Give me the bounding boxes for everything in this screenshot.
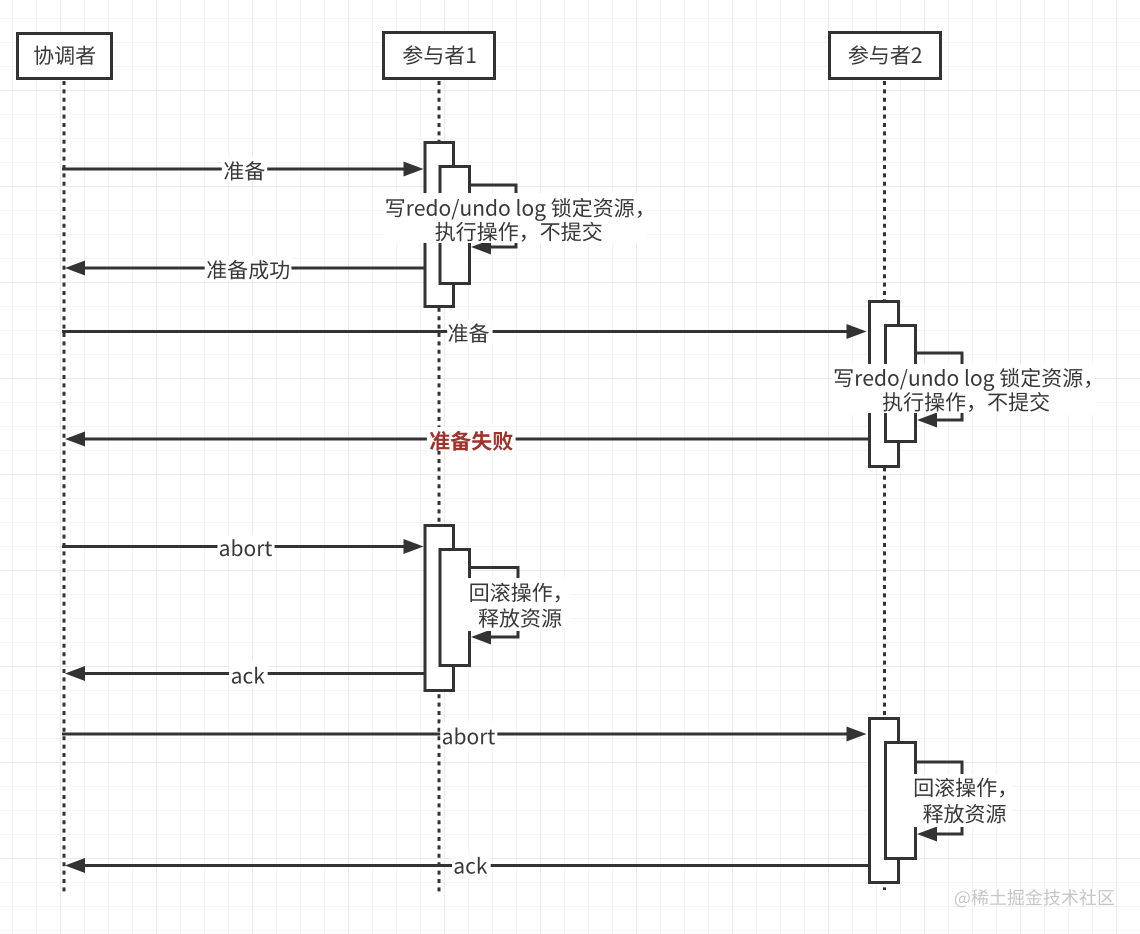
note text 参与者2 line2: [883, 392, 1049, 412]
label background 准备失败: [427, 427, 516, 451]
actor box 参与者1: [384, 33, 495, 79]
note background 参与者2 write log / lock: [832, 364, 1095, 413]
activation bar 参与者1 outer (abort phase): [425, 526, 454, 691]
label background 准备 #2: [447, 320, 492, 344]
note text 参与者1 line1: [386, 198, 641, 221]
arrow 准备失败 参与者2→协调者: [65, 432, 868, 447]
watermark @稀土掘金技术社区: [955, 889, 1114, 907]
label 准备成功: [207, 260, 289, 280]
arrow 准备成功 参与者1→协调者: [65, 261, 424, 276]
label background ack #1: [229, 662, 268, 686]
label ack #2: [455, 857, 488, 874]
note text 参与者2 rollback line2: [923, 804, 1006, 823]
arrow ack 参与者2→协调者: [65, 858, 868, 873]
note text 参与者1 rollback line2: [479, 608, 562, 627]
activation bar 参与者2 inner (prepare phase): [886, 326, 916, 442]
label 准备失败 (red): [430, 431, 513, 451]
lifeline 协调者: [63, 81, 66, 892]
label background abort #1: [218, 535, 275, 559]
activation bar 参与者2 outer (abort phase): [870, 719, 899, 883]
activation bar 参与者2 inner (abort phase): [886, 743, 916, 859]
note text 参与者1 rollback line1: [470, 583, 559, 603]
self message loop 参与者1 (rollback): [471, 568, 518, 645]
note background 参与者2 rollback: [908, 774, 1012, 827]
actor title 协调者: [34, 46, 95, 65]
arrow 准备 协调者→参与者2: [62, 324, 867, 339]
label 准备 #1: [224, 161, 264, 180]
note text 参与者1 line2: [435, 222, 601, 242]
arrow ack 参与者1→协调者: [65, 666, 424, 681]
arrow abort 协调者→参与者1: [62, 539, 424, 554]
label abort #1: [220, 539, 272, 556]
actor box 参与者2: [830, 33, 941, 79]
actor title 参与者2: [849, 45, 922, 64]
actor title 参与者1: [403, 45, 476, 64]
label background 准备 #1: [222, 157, 267, 181]
arrow 准备 协调者→参与者1: [62, 162, 424, 177]
label 准备 #2: [449, 323, 489, 342]
lifeline 参与者2: [883, 81, 886, 890]
activation bar 参与者2 outer (prepare phase): [870, 302, 899, 467]
label background ack #2: [452, 854, 491, 878]
arrow abort 协调者→参与者2: [62, 727, 867, 742]
activation bar 参与者1 inner (abort phase): [440, 550, 470, 666]
note background 参与者1 write log / lock: [384, 193, 646, 243]
lifeline 参与者1: [438, 81, 441, 892]
self message loop 参与者2 (write log / lock): [917, 353, 962, 428]
note text 参与者2 rollback line1: [915, 778, 1004, 798]
self message loop 参与者1 (write log / lock): [471, 185, 516, 255]
label background abort #2: [440, 722, 497, 746]
label background 准备成功: [205, 256, 292, 280]
note background 参与者1 rollback: [464, 578, 570, 631]
note text 参与者2 line1: [835, 368, 1090, 391]
self message loop 参与者2 (rollback): [917, 762, 962, 842]
label ack #1: [232, 667, 265, 684]
activation bar 参与者1 inner (prepare phase): [440, 167, 470, 284]
activation bar 参与者1 outer (prepare phase): [425, 143, 454, 307]
label abort #2: [443, 728, 495, 745]
actor box 协调者: [18, 34, 112, 79]
